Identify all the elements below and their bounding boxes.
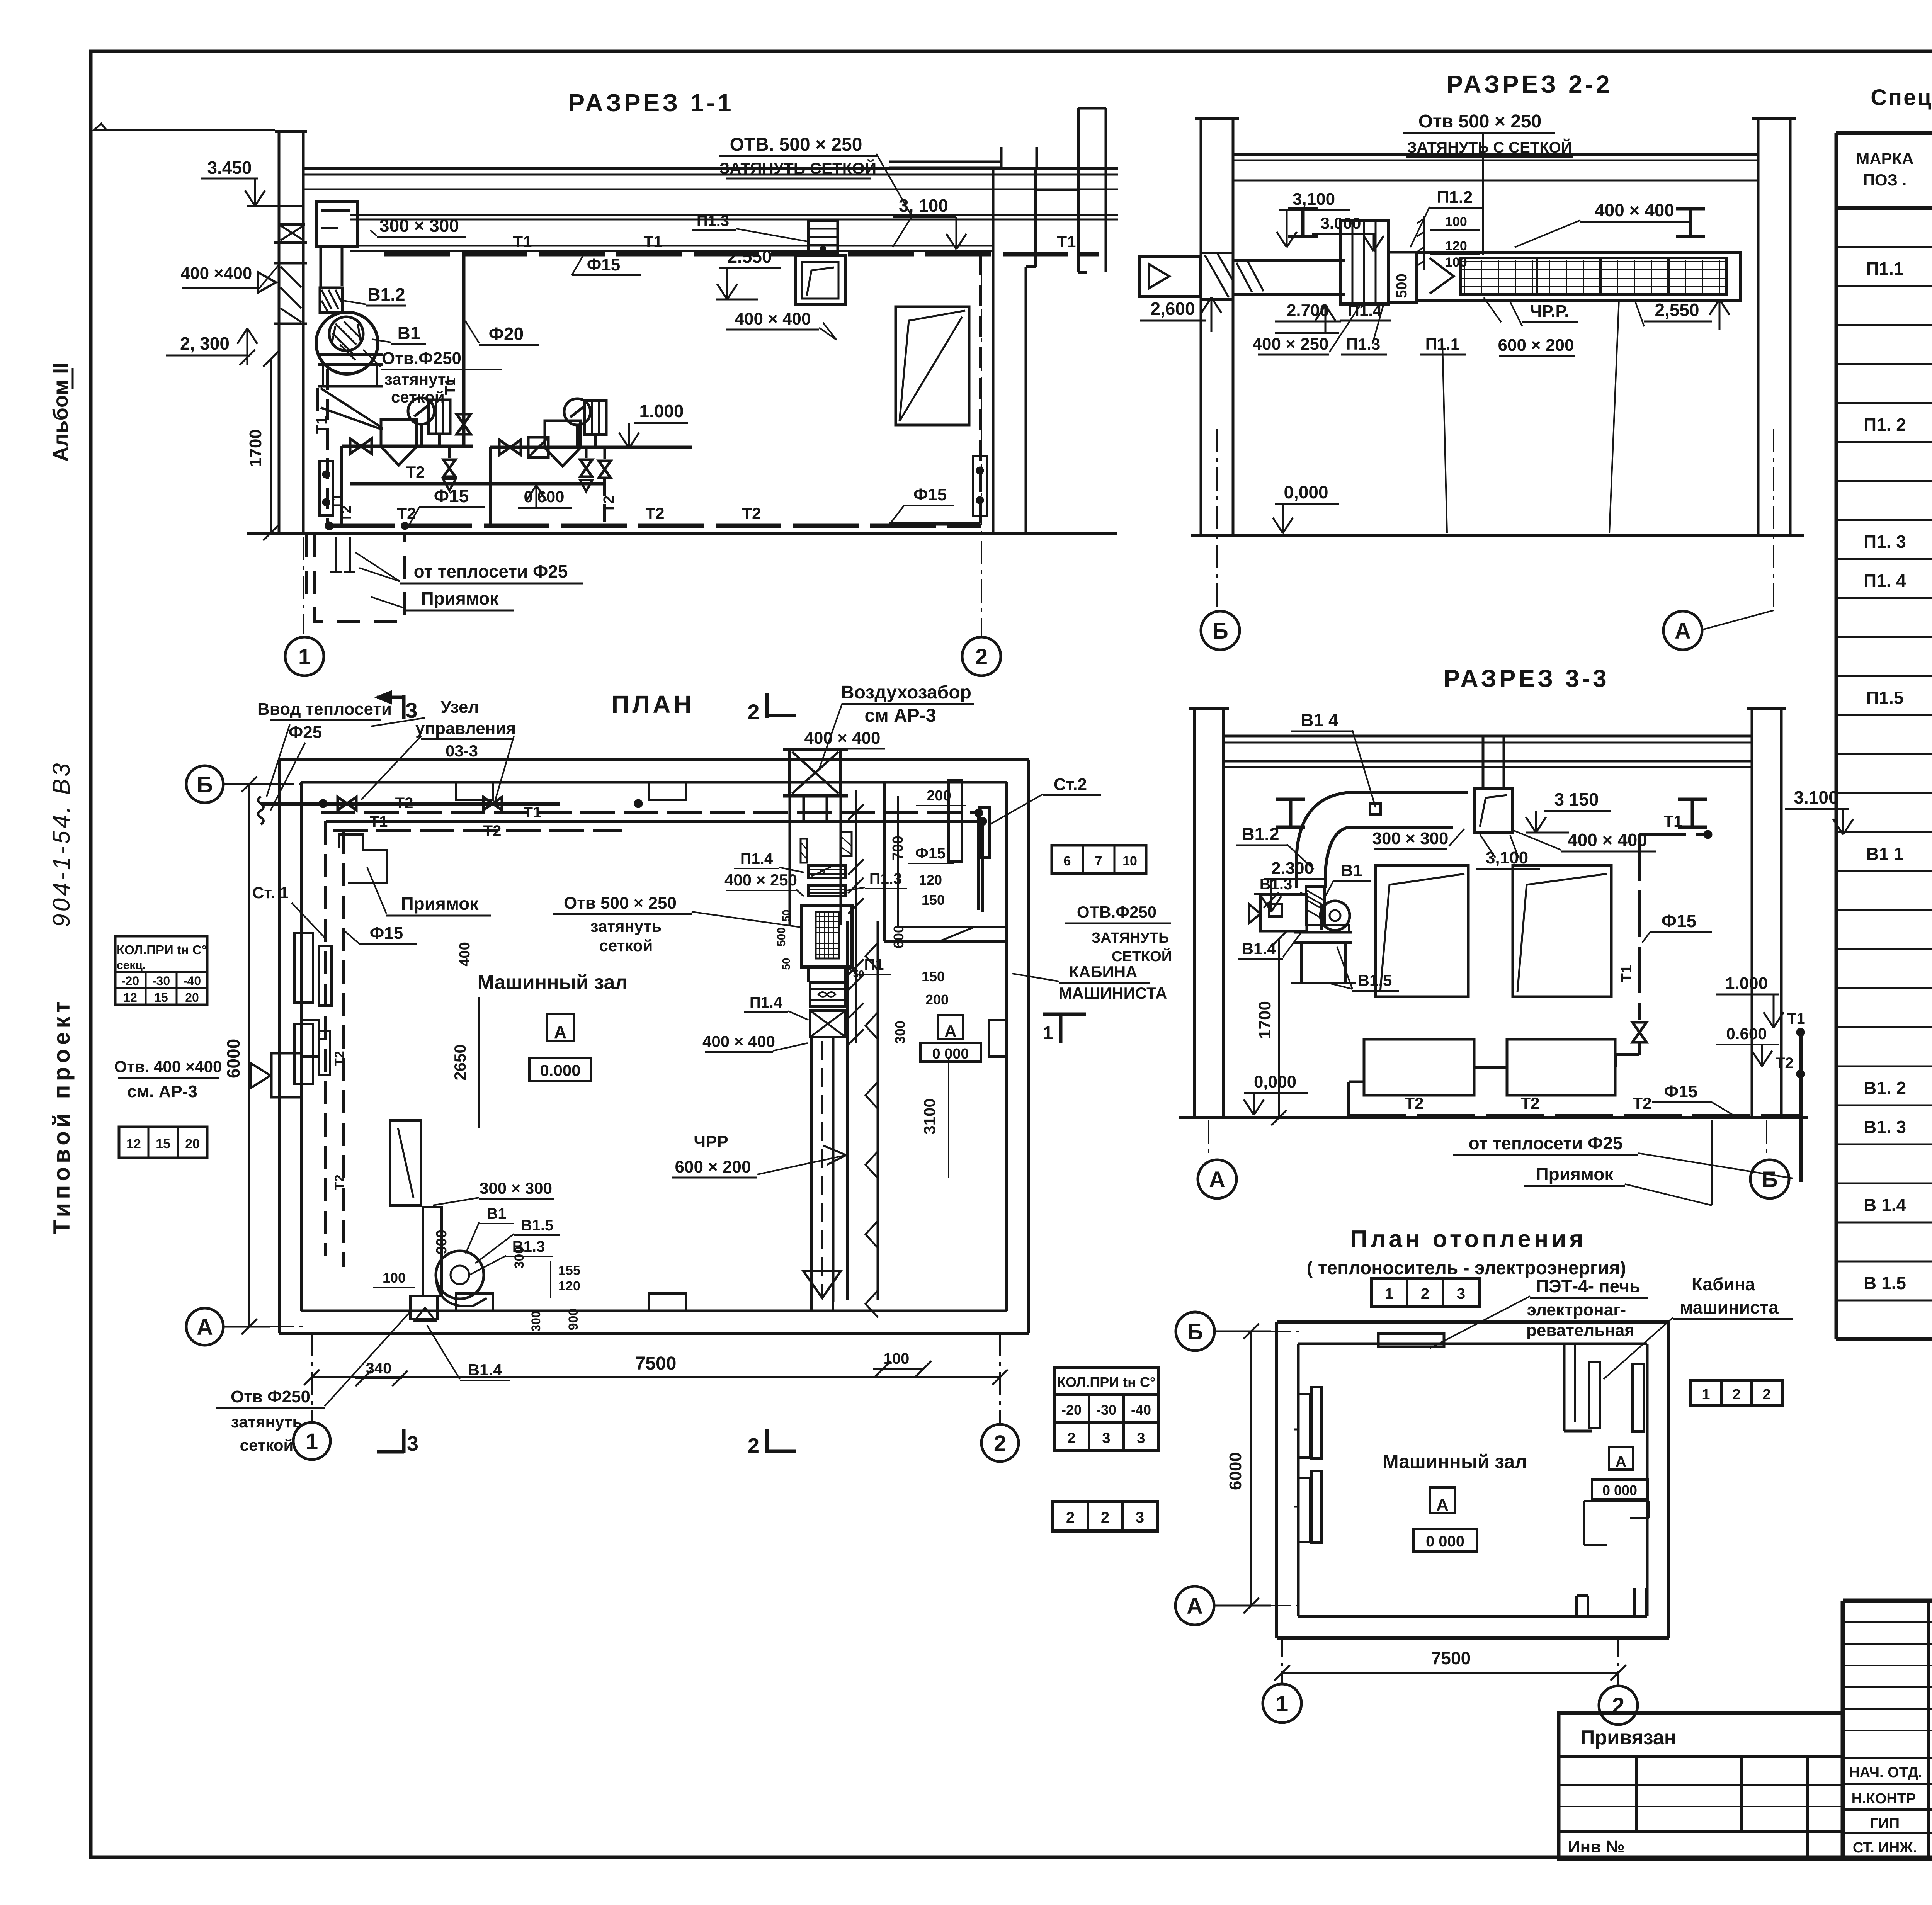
slat box П1 plan (infinity) xyxy=(810,982,845,1006)
svg-text:Т2: Т2 xyxy=(483,822,502,839)
pipe T1 riser (dashed) at wall xyxy=(326,369,329,525)
svg-text:12: 12 xyxy=(126,1137,141,1151)
svg-text:Б: Б xyxy=(1762,1167,1778,1192)
svg-text:3: 3 xyxy=(1102,1430,1110,1446)
PET heater top otopl xyxy=(1378,1334,1444,1347)
svg-text:1700: 1700 xyxy=(246,429,265,467)
svg-text:В1 1: В1 1 xyxy=(1866,844,1903,864)
svg-text:20: 20 xyxy=(185,991,199,1004)
svg-text:300 × 300: 300 × 300 xyxy=(480,1179,552,1197)
svg-text:МАРКА: МАРКА xyxy=(1856,150,1913,168)
floor 3-3 xyxy=(1179,1116,1808,1119)
slat box П1.3 plan xyxy=(808,885,845,896)
svg-text:Б: Б xyxy=(1212,619,1228,644)
heating pipes T1 T2 top xyxy=(261,802,560,806)
left wall column xyxy=(278,131,281,532)
svg-text:Приямок: Приямок xyxy=(1536,1164,1614,1184)
pipe T2 along floor (3-3) xyxy=(1349,1114,1801,1118)
svg-text:В1.3: В1.3 xyxy=(512,1238,545,1255)
svg-text:150: 150 xyxy=(922,969,945,984)
roof beam 2-2 xyxy=(1233,153,1758,156)
svg-text:1: 1 xyxy=(1385,1285,1393,1302)
spec table grid xyxy=(1836,133,1932,1339)
svg-text:ЧРР: ЧРР xyxy=(694,1132,728,1151)
box 12 15 20 left xyxy=(119,1127,207,1158)
svg-text:400 × 400: 400 × 400 xyxy=(735,309,811,328)
valve on T1 riser xyxy=(462,369,465,402)
boxed 0 000 otopl xyxy=(1413,1529,1477,1552)
svg-text:20: 20 xyxy=(185,1137,200,1151)
wall pilasters plan xyxy=(456,782,493,800)
svg-text:Т1: Т1 xyxy=(643,233,662,251)
privyazan block outline xyxy=(1559,1713,1843,1859)
svg-text:Н.КОНТР: Н.КОНТР xyxy=(1852,1791,1916,1807)
svg-text:7500: 7500 xyxy=(1431,1648,1471,1668)
svg-text:2, 300: 2, 300 xyxy=(180,333,230,353)
svg-text:Б: Б xyxy=(1187,1319,1203,1344)
svg-text:2: 2 xyxy=(994,1431,1006,1456)
drain valves manifold2 xyxy=(585,447,588,458)
pitot plug square on duct (3-3) xyxy=(1370,804,1381,814)
svg-text:сеткой: сеткой xyxy=(599,936,653,955)
radiator 1 (3-3) xyxy=(1364,1039,1474,1095)
wall opening hatch bottom-left plan xyxy=(410,1296,437,1319)
section mark 3 bottom xyxy=(402,1429,406,1453)
grid bubble Б (3-3) xyxy=(1750,1160,1789,1198)
svg-text:Машинный зал: Машинный зал xyxy=(1383,1451,1527,1472)
svg-text:А: А xyxy=(1436,1495,1449,1514)
left wall stands plan xyxy=(294,933,313,1003)
svg-text:400 × 400: 400 × 400 xyxy=(702,1032,775,1050)
valve on T1 (3-3) xyxy=(1633,1022,1646,1042)
svg-text:Т1: Т1 xyxy=(1787,1010,1805,1027)
svg-text:3: 3 xyxy=(1457,1285,1465,1302)
cabin door gap plan xyxy=(939,927,974,941)
svg-text:-30: -30 xyxy=(152,974,170,988)
pipe T1 end right xyxy=(1098,253,1101,256)
svg-text:Т1: Т1 xyxy=(1057,233,1076,251)
svg-text:6000: 6000 xyxy=(223,1039,243,1078)
svg-text:1700: 1700 xyxy=(1255,1001,1274,1039)
right wall column razrez 1-1 xyxy=(992,167,995,534)
grid bubble Б otopl xyxy=(1176,1312,1214,1351)
cabin otopl xyxy=(1563,1344,1566,1431)
svg-text:1: 1 xyxy=(306,1429,318,1454)
left column 2-2 xyxy=(1200,119,1202,536)
svg-text:2.550: 2.550 xyxy=(727,246,772,267)
cabin walls plan (top right) xyxy=(883,782,886,941)
svg-text:Т2: Т2 xyxy=(406,463,425,481)
svg-text:3100: 3100 xyxy=(920,1098,939,1134)
window 1 (3-3) xyxy=(1376,865,1468,997)
svg-text:15: 15 xyxy=(154,991,168,1004)
privyazan grid xyxy=(1559,1757,1843,1859)
leader to duct (2-2) xyxy=(1482,133,1484,255)
spec table rows xyxy=(1864,218,1932,1332)
grid bubble Б plan xyxy=(186,766,223,803)
svg-text:120: 120 xyxy=(919,872,942,888)
svg-text:-20: -20 xyxy=(121,974,139,988)
svg-text:50: 50 xyxy=(780,958,792,970)
svg-text:600: 600 xyxy=(891,925,906,948)
svg-text:300 × 300: 300 × 300 xyxy=(379,216,459,236)
window right xyxy=(896,307,969,425)
svg-text:ЗАТЯНУТЬ: ЗАТЯНУТЬ xyxy=(1092,930,1169,946)
svg-text:Типовой проект: Типовой проект xyxy=(49,998,75,1234)
svg-text:300 × 300: 300 × 300 xyxy=(1372,829,1449,848)
svg-text:0 000: 0 000 xyxy=(932,1046,969,1062)
svg-text:2: 2 xyxy=(1101,1509,1109,1526)
svg-text:Т2: Т2 xyxy=(332,1174,347,1190)
section mark 3 top xyxy=(402,695,406,719)
left margin label: Альбом II xyxy=(49,362,73,462)
svg-text:1: 1 xyxy=(1276,1691,1288,1716)
grid bubble 2 plan xyxy=(981,1424,1019,1461)
svg-text:Т1: Т1 xyxy=(1619,965,1635,982)
section mark 2 bottom xyxy=(765,1429,769,1453)
grid bubble Б (2-2) xyxy=(1201,611,1240,650)
svg-text:400 × 400: 400 × 400 xyxy=(1568,830,1647,850)
svg-text:600 × 200: 600 × 200 xyxy=(675,1157,751,1176)
damper П1.4 box (2-2) xyxy=(1341,220,1389,304)
grid bubble 2 xyxy=(962,637,1001,676)
grid bubble А (3-3) xyxy=(1198,1160,1236,1198)
svg-text:ОТВ.Ф250: ОТВ.Ф250 xyxy=(1077,903,1156,921)
pipes into pit xyxy=(335,537,337,572)
svg-text:0,000: 0,000 xyxy=(1254,1072,1296,1091)
table КОЛ.ПРИ left xyxy=(115,936,207,1005)
svg-text:12: 12 xyxy=(123,991,137,1004)
thermometer manifold2 xyxy=(585,401,606,435)
svg-text:А: А xyxy=(1675,619,1691,644)
right column 2-2 xyxy=(1757,119,1760,536)
radiator feed pipes (3-3) xyxy=(1349,1081,1364,1083)
svg-text:Отв Ф250: Отв Ф250 xyxy=(231,1387,310,1406)
roof slab line to page border xyxy=(94,129,275,131)
svg-text:ПЭТ-4- печь: ПЭТ-4- печь xyxy=(1536,1276,1640,1296)
dim 7500 otopl xyxy=(1282,1672,1618,1674)
svg-text:В1.2: В1.2 xyxy=(367,284,405,304)
svg-text:1.000: 1.000 xyxy=(639,401,684,421)
svg-text:2: 2 xyxy=(975,644,988,670)
thermometer manifold1 xyxy=(429,400,450,434)
svg-text:ПЛАН: ПЛАН xyxy=(611,690,694,718)
svg-text:2: 2 xyxy=(1066,1509,1075,1526)
svg-text:2: 2 xyxy=(1067,1430,1075,1446)
title block outline xyxy=(1843,1601,1932,1859)
fan B1 plan xyxy=(436,1251,484,1299)
svg-text:Кабина: Кабина xyxy=(1692,1274,1755,1294)
grid bubble А otopl xyxy=(1175,1586,1214,1625)
svg-text:1: 1 xyxy=(1043,1023,1053,1043)
svg-text:управления: управления xyxy=(415,719,516,738)
svg-text:6000: 6000 xyxy=(1226,1452,1245,1490)
svg-text:А: А xyxy=(554,1022,566,1042)
svg-text:400 × 400: 400 × 400 xyxy=(1595,200,1674,220)
axis 3-3 left xyxy=(1208,1120,1209,1159)
svg-text:В1.4: В1.4 xyxy=(468,1361,502,1379)
svg-text:2: 2 xyxy=(748,1434,759,1457)
main duct with grid ЧРР (2-2) xyxy=(1417,252,1740,300)
svg-text:2: 2 xyxy=(1732,1387,1740,1403)
svg-text:2,600: 2,600 xyxy=(1150,299,1195,319)
svg-text:400 × 250: 400 × 250 xyxy=(1253,335,1329,353)
dim 6000 otopl xyxy=(1250,1331,1252,1606)
svg-text:В 1.5: В 1.5 xyxy=(1864,1273,1906,1293)
svg-text:7: 7 xyxy=(1095,854,1102,868)
svg-text:904-1-54. В3: 904-1-54. В3 xyxy=(48,761,75,927)
svg-text:0,000: 0,000 xyxy=(1284,482,1328,502)
svg-text:Ф15: Ф15 xyxy=(370,924,403,943)
boxed А cabin plan xyxy=(938,1015,963,1039)
duct stub through left wall (2-2) xyxy=(1139,256,1201,296)
filter manifold2 xyxy=(545,421,580,448)
svg-text:Т2: Т2 xyxy=(1520,1094,1539,1112)
svg-text:1: 1 xyxy=(298,644,311,670)
fan B1 volute and impeller xyxy=(316,312,378,374)
left column 3-3 xyxy=(1193,709,1196,1118)
svg-text:Ф20: Ф20 xyxy=(489,324,524,344)
floor line razrez 1-1 xyxy=(247,532,1117,535)
section mark 1 (right of plan) xyxy=(1043,1013,1086,1016)
svg-text:РАЗРЕЗ 1-1: РАЗРЕЗ 1-1 xyxy=(568,89,734,117)
svg-text:Ф15: Ф15 xyxy=(434,486,469,506)
svg-text:Ф15: Ф15 xyxy=(1664,1082,1698,1101)
svg-text:340: 340 xyxy=(366,1360,392,1377)
svg-text:СЕТКОЙ: СЕТКОЙ xyxy=(1112,947,1172,965)
vert dim 1700 (3-3) xyxy=(1278,939,1280,1118)
svg-text:2.300: 2.300 xyxy=(1271,859,1314,878)
svg-text:Ф25: Ф25 xyxy=(289,723,322,742)
fan support bracket xyxy=(318,363,383,366)
svg-text:П1.5: П1.5 xyxy=(1866,688,1903,708)
svg-text:от теплосети Ф25: от теплосети Ф25 xyxy=(414,561,568,581)
svg-text:900: 900 xyxy=(566,1309,581,1331)
svg-text:1: 1 xyxy=(1702,1387,1710,1403)
fan stand (3-3) xyxy=(1294,931,1352,934)
svg-text:400: 400 xyxy=(457,942,473,966)
svg-text:Б: Б xyxy=(197,772,213,797)
svg-text:( теплоноситель - электроэнерг: ( теплоноситель - электроэнергия) xyxy=(1307,1258,1626,1278)
dim 7500 plan xyxy=(312,1376,1000,1378)
dim 6000 plan xyxy=(248,784,250,1327)
grid bubble А (2-2) xyxy=(1663,611,1702,650)
spec header texts xyxy=(1856,150,1932,190)
svg-text:машиниста: машиниста xyxy=(1680,1297,1779,1317)
svg-text:НАЧ. ОТД.: НАЧ. ОТД. xyxy=(1849,1764,1922,1781)
svg-text:Т2: Т2 xyxy=(395,795,413,812)
svg-text:500: 500 xyxy=(775,927,788,947)
svg-text:Т2: Т2 xyxy=(1776,1055,1794,1072)
pipe risers left wall plan xyxy=(324,821,327,1256)
gauge manifold2 xyxy=(564,399,590,425)
svg-text:400 × 400: 400 × 400 xyxy=(804,729,881,748)
left wall duct and fan plan xyxy=(390,1120,421,1205)
svg-text:Отв 500 × 250: Отв 500 × 250 xyxy=(564,894,677,913)
duct run left section (2-2) xyxy=(1233,259,1345,262)
ibeam left (3-3) xyxy=(1276,798,1305,801)
grid bubble 1 xyxy=(285,637,324,676)
pipe T2 mid header xyxy=(350,482,605,486)
grid bubble 1 plan xyxy=(293,1422,330,1460)
duct continues down plan xyxy=(810,1037,813,1302)
flexible insert B1.2 (hatched) xyxy=(320,288,342,313)
supply duct chain down middle plan xyxy=(789,796,791,925)
svg-text:10: 10 xyxy=(1122,854,1137,868)
pryamok dashed pit xyxy=(314,534,405,621)
svg-text:3.450: 3.450 xyxy=(207,158,252,178)
svg-text:Приямок: Приямок xyxy=(421,588,499,608)
svg-text:ПОЗ .: ПОЗ . xyxy=(1863,171,1907,189)
svg-text:ОТВ. 500 × 250: ОТВ. 500 × 250 xyxy=(730,134,862,155)
svg-text:от теплосети Ф25: от теплосети Ф25 xyxy=(1469,1133,1623,1153)
boxed 0 000 cabin otopl xyxy=(1592,1480,1648,1499)
svg-text:электронаг-: электронаг- xyxy=(1527,1300,1626,1319)
svg-text:Инв №: Инв № xyxy=(1568,1837,1625,1856)
ibeam right 2-2 xyxy=(1676,207,1705,211)
axis lines 2-2 xyxy=(1216,429,1218,610)
svg-text:100: 100 xyxy=(383,1270,406,1286)
svg-text:Т1: Т1 xyxy=(442,378,459,395)
svg-text:500: 500 xyxy=(1394,274,1410,298)
ibeam right (3-3) xyxy=(1678,798,1707,801)
box 6 7 10 (right of plan) xyxy=(1052,845,1146,873)
filter manifold1 xyxy=(381,420,417,447)
valves on top pipes plan xyxy=(338,797,356,810)
svg-text:0.000: 0.000 xyxy=(540,1061,580,1079)
svg-text:В1: В1 xyxy=(1341,861,1362,880)
svg-text:В1.2: В1.2 xyxy=(1242,824,1279,844)
exhaust duct 300x300 horizontal (3-3) xyxy=(1349,791,1468,794)
axis line column 1 xyxy=(303,537,304,634)
svg-text:П1.3: П1.3 xyxy=(697,212,729,229)
svg-text:3 150: 3 150 xyxy=(1554,789,1599,809)
svg-text:см АР-3: см АР-3 xyxy=(865,705,936,726)
svg-text:Ф15: Ф15 xyxy=(587,255,621,274)
svg-text:3,100: 3,100 xyxy=(1293,190,1335,209)
duct drop to fan xyxy=(320,246,322,288)
svg-text:2650: 2650 xyxy=(451,1044,469,1080)
svg-text:КОЛ.ПРИ tн С°: КОЛ.ПРИ tн С° xyxy=(1057,1374,1155,1390)
pipe Ф15 dashed riser right xyxy=(979,254,982,524)
svg-text:СТ. ИНЖ.: СТ. ИНЖ. xyxy=(1853,1840,1917,1856)
svg-text:РАЗРЕЗ 2-2: РАЗРЕЗ 2-2 xyxy=(1446,70,1612,98)
svg-text:П1.4: П1.4 xyxy=(750,994,782,1011)
svg-text:Т1: Т1 xyxy=(313,416,330,434)
svg-text:В1. 3: В1. 3 xyxy=(1864,1117,1906,1137)
valve manifold2 xyxy=(499,440,521,455)
flow arrow (2-2) xyxy=(1430,258,1454,294)
svg-text:50: 50 xyxy=(780,909,792,921)
pipe T1 (3-3) xyxy=(1639,833,1708,836)
svg-text:Спецификация отопительно - ве: Спецификация отопительно - вентиляционны… xyxy=(1871,85,1932,110)
svg-text:А: А xyxy=(1616,1453,1627,1470)
svg-text:2,550: 2,550 xyxy=(1655,300,1699,320)
wall air-intake opening 400x400 xyxy=(274,241,307,244)
svg-text:1.000: 1.000 xyxy=(1725,974,1768,993)
radiators on left wall otopl xyxy=(1298,1394,1310,1458)
boxed А cabin otopl xyxy=(1609,1447,1633,1470)
svg-text:120: 120 xyxy=(558,1279,580,1293)
svg-text:РАЗРЕЗ 3-3: РАЗРЕЗ 3-3 xyxy=(1443,664,1609,692)
svg-text:А: А xyxy=(1209,1167,1225,1192)
svg-text:400 × 250: 400 × 250 xyxy=(724,871,797,889)
svg-text:В1.4: В1.4 xyxy=(1242,940,1276,958)
supply duct bottom outlet plan xyxy=(803,1271,841,1298)
svg-text:МАШИНИСТА: МАШИНИСТА xyxy=(1059,984,1167,1002)
svg-text:А: А xyxy=(1187,1594,1203,1619)
svg-text:Ф15: Ф15 xyxy=(913,485,947,504)
drain valve manifold1 xyxy=(448,446,451,458)
manifold 2 pipe xyxy=(490,446,692,449)
svg-text:В1: В1 xyxy=(398,323,420,343)
right parapet top xyxy=(889,161,1000,163)
bottom wall details otopl xyxy=(1575,1596,1578,1616)
boxed 0.000 cabin plan xyxy=(920,1043,981,1062)
svg-text:секц.: секц. xyxy=(117,959,146,972)
pipe bends right plan xyxy=(977,813,980,910)
svg-text:Ф15: Ф15 xyxy=(915,845,946,862)
svg-text:-30: -30 xyxy=(1096,1402,1116,1418)
box 2 2 3 otopl xyxy=(1053,1501,1158,1531)
boxed А otopl xyxy=(1430,1487,1455,1513)
svg-text:П1. 3: П1. 3 xyxy=(1864,532,1906,552)
svg-text:Т2: Т2 xyxy=(1405,1094,1423,1112)
svg-text:15: 15 xyxy=(156,1137,170,1151)
svg-text:П1. 2: П1. 2 xyxy=(1864,415,1906,435)
svg-text:Т2: Т2 xyxy=(742,504,761,522)
svg-text:План отопления: План отопления xyxy=(1350,1226,1586,1252)
svg-text:Ст. 1: Ст. 1 xyxy=(252,884,289,902)
recirculation box 400x400 xyxy=(795,256,845,305)
svg-text:В 1.4: В 1.4 xyxy=(1864,1195,1906,1215)
axis line column 2 xyxy=(981,270,982,636)
roof beams 3-3 xyxy=(1223,735,1752,738)
boxed 0.000 plan xyxy=(529,1058,591,1081)
svg-text:ревательная: ревательная xyxy=(1526,1321,1634,1340)
svg-text:В1: В1 xyxy=(486,1205,506,1222)
svg-text:2: 2 xyxy=(747,700,759,724)
svg-text:300: 300 xyxy=(529,1311,543,1331)
main heating pipe T1 under ceiling xyxy=(384,252,1099,257)
svg-text:Т2: Т2 xyxy=(332,1051,347,1066)
svg-text:-40: -40 xyxy=(1131,1402,1151,1418)
svg-text:155: 155 xyxy=(558,1263,580,1278)
svg-text:Т2: Т2 xyxy=(1633,1094,1651,1112)
duct elbow (3-3) xyxy=(1297,792,1349,852)
svg-text:300: 300 xyxy=(892,1021,908,1044)
gauge manifold1 xyxy=(408,398,434,424)
grid bubble А plan xyxy=(186,1308,223,1345)
svg-text:ГИП: ГИП xyxy=(1870,1815,1900,1832)
duct elbow at wall 300x300 xyxy=(317,202,357,246)
svg-text:ЗАТЯНУТЬ СЕТКОЙ: ЗАТЯНУТЬ СЕТКОЙ xyxy=(719,159,876,177)
floor 2-2 xyxy=(1191,534,1804,537)
svg-text:затянуть: затянуть xyxy=(231,1413,302,1431)
svg-text:Привязан: Привязан xyxy=(1580,1727,1676,1749)
dim 1700 vertical xyxy=(270,359,272,533)
svg-text:2: 2 xyxy=(1762,1387,1770,1403)
svg-text:Т1: Т1 xyxy=(1663,812,1682,830)
hatch wall crossing (2-2) xyxy=(1236,263,1252,292)
svg-text:Отв.Ф250: Отв.Ф250 xyxy=(382,349,461,368)
pipe Ф20 riser xyxy=(462,254,466,447)
filter grid box plan xyxy=(802,906,852,967)
wall bracket detail xyxy=(320,461,333,515)
svg-text:Отв. 400 ×400: Отв. 400 ×400 xyxy=(114,1057,222,1076)
svg-text:Ф15: Ф15 xyxy=(1662,911,1696,931)
ЧРР duct right side plan xyxy=(846,921,849,1300)
